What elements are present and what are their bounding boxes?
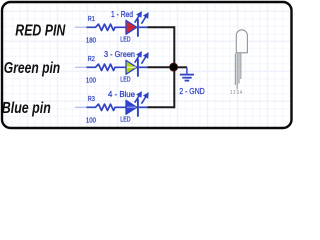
svg-text:1 - Red: 1 - Red bbox=[111, 10, 133, 19]
svg-text:R2: R2 bbox=[88, 54, 95, 63]
RGB LED package leg 1 bbox=[234, 53, 236, 85]
RGB LED package leg 2 bbox=[236, 53, 238, 89]
svg-text:Green pin: Green pin bbox=[4, 60, 60, 77]
LED D3 light arrow 2 bbox=[142, 92, 149, 104]
ground symbol bbox=[180, 67, 194, 80]
LED D1 anode pin stub bbox=[139, 26, 148, 28]
resistor R1 unconnected pin stub bbox=[75, 26, 87, 28]
svg-text:R1: R1 bbox=[88, 14, 95, 23]
wire blue row to bus bbox=[148, 106, 175, 108]
resistor R3 unconnected pin stub bbox=[75, 106, 87, 108]
wire red row to bus bbox=[148, 26, 175, 28]
svg-text:180: 180 bbox=[86, 35, 96, 44]
LED D2 highlight stripe bbox=[127, 66, 136, 68]
wire common vertical bus bbox=[173, 26, 175, 108]
svg-text:100: 100 bbox=[86, 75, 96, 84]
LED D2 (green) triangle bbox=[126, 60, 137, 74]
svg-text:2 - GND: 2 - GND bbox=[179, 87, 205, 96]
LED D3 (blue) triangle bbox=[126, 100, 137, 114]
LED D1 light arrow 2 bbox=[142, 12, 149, 24]
svg-text:3 - Green: 3 - Green bbox=[104, 50, 135, 59]
junction node bbox=[170, 63, 178, 71]
LED D3 center stripe bbox=[127, 106, 136, 108]
LED D2 anode pin stub bbox=[139, 66, 148, 68]
LED D2 light arrow 1 bbox=[135, 51, 142, 63]
LED D1 cathode bar bbox=[137, 19, 139, 37]
resistor R3 bbox=[87, 104, 127, 110]
RGB LED package leg 3 bbox=[238, 53, 240, 83]
svg-text:RED PIN: RED PIN bbox=[15, 23, 66, 40]
LED D1 light arrow 1 bbox=[135, 11, 142, 23]
svg-text:4 - Blue: 4 - Blue bbox=[108, 90, 136, 99]
RGB LED package body bbox=[236, 30, 247, 53]
svg-text:LED: LED bbox=[120, 117, 130, 124]
border frame bbox=[2, 2, 292, 128]
svg-text:100: 100 bbox=[86, 115, 96, 124]
resistor R2 bbox=[87, 64, 127, 70]
LED D2 cathode bar bbox=[137, 59, 139, 77]
wire green row to bus bbox=[148, 66, 175, 68]
LED D1 center stripe bbox=[127, 26, 136, 28]
LED D3 cathode bar bbox=[137, 99, 139, 117]
resistor R2 unconnected pin stub bbox=[75, 66, 87, 68]
LED D3 light arrow 1 bbox=[135, 91, 142, 103]
svg-text:Blue pin: Blue pin bbox=[2, 100, 51, 117]
LED D1 (red) triangle bbox=[126, 20, 137, 34]
LED D2 light arrow 2 bbox=[142, 52, 149, 64]
resistor R1 bbox=[87, 24, 127, 30]
wire bus to ground bbox=[174, 66, 187, 68]
RGB LED package leg 4 bbox=[240, 53, 242, 79]
svg-text:LED: LED bbox=[120, 37, 130, 44]
svg-text:LED: LED bbox=[120, 77, 130, 84]
svg-text:1 2 3 4: 1 2 3 4 bbox=[230, 90, 242, 96]
LED D3 anode pin stub bbox=[139, 106, 148, 108]
svg-text:R3: R3 bbox=[88, 94, 95, 103]
